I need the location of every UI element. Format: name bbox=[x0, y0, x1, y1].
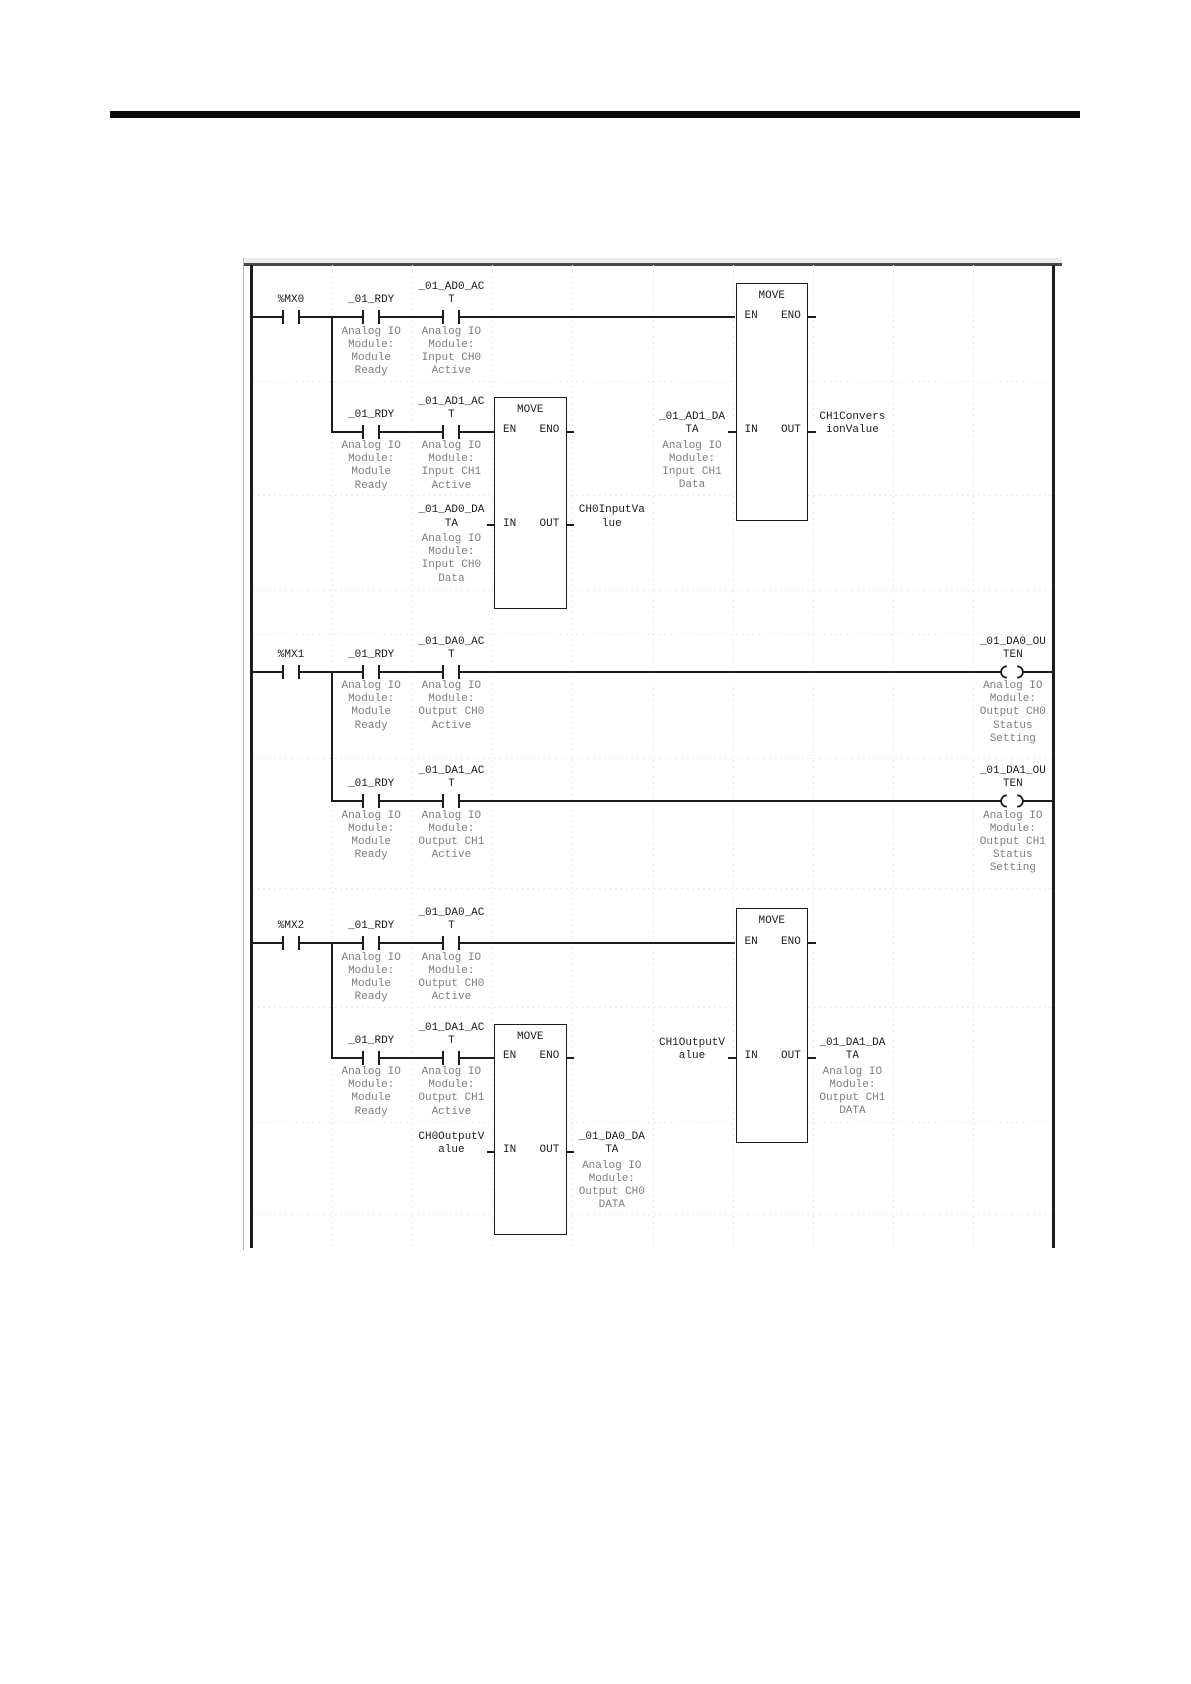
grid row line 9 bbox=[252, 1214, 1052, 1215]
wire U2 ENO stub bbox=[567, 431, 575, 433]
contact %MX2 label bbox=[211, 920, 371, 933]
contact _01_DA0_ACT r3a bbox=[442, 936, 444, 950]
grid row line 1 bbox=[252, 381, 1052, 382]
contact _01_RDY r1b bbox=[362, 425, 364, 439]
wire rung2 _01_RDY to _01_DA0_ACT bbox=[380, 671, 442, 673]
operand U2 OUT CH0InputValue label bbox=[532, 504, 692, 530]
wire rung2b _01_RDY to _01_DA1_ACT bbox=[380, 800, 442, 802]
operand U3 OUT _01_DA0_DATA description bbox=[532, 1160, 692, 1213]
grid row line 4 bbox=[252, 634, 1052, 635]
contact _01_AD0_ACT description bbox=[371, 326, 531, 379]
grid row line 5 bbox=[252, 758, 1052, 759]
contact _01_DA0_ACT r3a label bbox=[371, 907, 531, 933]
contact _01_DA1_ACT r2b label bbox=[371, 765, 531, 791]
wire rung2 %MX1 to _01_RDY bbox=[300, 671, 362, 673]
grid column line 1 bbox=[332, 265, 333, 1248]
function block MOVE U3 bbox=[494, 1024, 567, 1235]
contact _01_RDY r2b label bbox=[291, 778, 451, 791]
contact _01_RDY r3b label bbox=[291, 1035, 451, 1048]
contact _01_DA0_ACT r2a label bbox=[371, 636, 531, 662]
operand U1 IN _01_AD1_DATA description bbox=[612, 440, 772, 493]
wire U1 OUT stub bbox=[808, 431, 816, 433]
right power rail bbox=[1052, 265, 1055, 1248]
contact _01_RDY r1a bbox=[362, 310, 364, 324]
grid column line 7 bbox=[813, 265, 814, 1248]
contact _01_AD0_ACT bbox=[442, 310, 444, 324]
contact _01_AD0_ACT label bbox=[371, 281, 531, 307]
contact _01_AD1_ACT label bbox=[371, 396, 531, 422]
contact _01_RDY r2a label bbox=[291, 649, 451, 662]
contact _01_AD1_ACT description bbox=[371, 440, 531, 493]
grid column line 3 bbox=[492, 265, 493, 1248]
operand U2 IN _01_AD0_DATA description bbox=[371, 533, 531, 586]
wire rung3 %MX2 to _01_RDY bbox=[300, 942, 362, 944]
wire rung1b _01_AD1_ACT to MOVE U2 bbox=[460, 431, 494, 433]
operand U2 IN _01_AD0_DATA label bbox=[371, 504, 531, 530]
ladder window left border bbox=[243, 258, 244, 1250]
wire rung1b _01_RDY to _01_AD1_ACT bbox=[380, 431, 442, 433]
wire rung3b _01_DA1_ACT to MOVE U3 bbox=[460, 1057, 494, 1059]
wire rung2 rail to %MX1 bbox=[253, 671, 282, 673]
grid column line 8 bbox=[893, 265, 894, 1248]
contact _01_DA0_ACT r3a description bbox=[371, 952, 531, 1005]
operand U3 OUT _01_DA0_DATA label bbox=[532, 1131, 692, 1157]
operand U1 OUT CH1ConversionValue label bbox=[772, 411, 932, 437]
wire rung3b branch to _01_RDY bbox=[331, 1057, 362, 1059]
wire rung2b branch to _01_RDY bbox=[331, 800, 362, 802]
function block MOVE U2 bbox=[494, 397, 567, 609]
wire rung1 rail to %MX0 contact bbox=[253, 316, 282, 318]
contact %MX0 bbox=[282, 310, 284, 324]
wire rung2b _01_DA1_ACT to coil bbox=[460, 800, 1001, 802]
coil _01_DA0_OUTEN description bbox=[933, 680, 1093, 746]
contact _01_RDY r3b description bbox=[291, 1066, 451, 1119]
contact _01_DA0_ACT r2a description bbox=[371, 680, 531, 733]
contact _01_RDY r2b description bbox=[291, 810, 451, 863]
wire U2 OUT stub bbox=[567, 524, 575, 526]
contact %MX1 label bbox=[211, 649, 371, 662]
contact _01_DA1_ACT r3b description bbox=[371, 1066, 531, 1119]
grid column line 6 bbox=[733, 265, 734, 1248]
contact %MX2 bbox=[282, 936, 284, 950]
wire U3 OUT stub bbox=[567, 1151, 575, 1153]
contact _01_RDY r1a label bbox=[291, 294, 451, 307]
contact _01_DA0_ACT r2a bbox=[442, 665, 444, 679]
wire U1 ENO stub bbox=[808, 316, 816, 318]
wire rung3 rail to %MX2 bbox=[253, 942, 282, 944]
operand U4 OUT _01_DA1_DATA description bbox=[772, 1066, 932, 1119]
contact _01_RDY r3a description bbox=[291, 952, 451, 1005]
wire U1 IN stub bbox=[728, 431, 736, 433]
function block MOVE U4 bbox=[736, 908, 809, 1143]
grid column line 4 bbox=[572, 265, 573, 1248]
wire rung3b _01_RDY to _01_DA1_ACT bbox=[380, 1057, 442, 1059]
left power rail bbox=[250, 265, 253, 1248]
wire rung1 _01_AD0_ACT to MOVE U1 bbox=[460, 316, 735, 318]
contact _01_RDY r2b bbox=[362, 794, 364, 808]
grid column line 2 bbox=[412, 265, 413, 1248]
grid column line 9 bbox=[973, 265, 974, 1248]
branch rung1 bbox=[331, 317, 333, 433]
contact _01_RDY r2a bbox=[362, 665, 364, 679]
wire U4 OUT stub bbox=[808, 1057, 816, 1059]
wire U4 ENO stub bbox=[808, 942, 816, 944]
operand U4 OUT _01_DA1_DATA label bbox=[772, 1037, 932, 1063]
wire rung1 %MX0 to _01_RDY bbox=[300, 316, 362, 318]
wire rung2b coil to right rail bbox=[1022, 800, 1052, 802]
wire U3 ENO stub bbox=[567, 1057, 575, 1059]
wire U3 IN stub bbox=[487, 1151, 495, 1153]
wire rung1 branch to _01_RDY b bbox=[331, 431, 362, 433]
grid row line 6 bbox=[252, 888, 1052, 889]
operand U4 IN CH1OutputValue label bbox=[612, 1037, 772, 1063]
ladder window top strip bbox=[243, 258, 1062, 263]
coil _01_DA0_OUTEN bbox=[998, 665, 1026, 679]
function block MOVE U1 bbox=[736, 283, 809, 522]
branch rung3 bbox=[331, 943, 333, 1059]
contact _01_DA1_ACT r3b bbox=[442, 1051, 444, 1065]
contact _01_RDY r1b label bbox=[291, 409, 451, 422]
document top rule bbox=[110, 111, 1080, 118]
contact %MX1 bbox=[282, 665, 284, 679]
contact _01_RDY r1a description bbox=[291, 326, 451, 379]
ladder window top border bbox=[243, 263, 1062, 266]
coil _01_DA1_OUTEN label bbox=[933, 765, 1093, 791]
wire U4 IN stub bbox=[728, 1057, 736, 1059]
contact _01_RDY r3a label bbox=[291, 920, 451, 933]
wire rung1 _01_RDY to _01_AD0_ACT bbox=[380, 316, 442, 318]
wire rung2 coil to right rail bbox=[1022, 671, 1052, 673]
operand U3 IN CH0OutputValue label bbox=[371, 1131, 531, 1157]
grid row line 8 bbox=[252, 1122, 1052, 1123]
contact _01_AD1_ACT bbox=[442, 425, 444, 439]
wire rung3 _01_DA0_ACT to MOVE U4 bbox=[460, 942, 735, 944]
grid row line 2 bbox=[252, 495, 1052, 496]
contact _01_RDY r2a description bbox=[291, 680, 451, 733]
contact %MX0 label bbox=[211, 294, 371, 307]
coil _01_DA1_OUTEN bbox=[998, 794, 1026, 808]
wire rung2 _01_DA0_ACT to coil bbox=[460, 671, 1001, 673]
contact _01_RDY r3a bbox=[362, 936, 364, 950]
contact _01_DA1_ACT r2b bbox=[442, 794, 444, 808]
grid row line 3 bbox=[252, 590, 1052, 591]
operand U1 IN _01_AD1_DATA label bbox=[612, 411, 772, 437]
grid row line 7 bbox=[252, 1007, 1052, 1008]
coil _01_DA0_OUTEN label bbox=[933, 636, 1093, 662]
contact _01_RDY r1b description bbox=[291, 440, 451, 493]
wire U2 IN stub bbox=[487, 524, 495, 526]
contact _01_DA1_ACT r3b label bbox=[371, 1022, 531, 1048]
contact _01_RDY r3b bbox=[362, 1051, 364, 1065]
coil _01_DA1_OUTEN description bbox=[933, 810, 1093, 876]
grid column line 5 bbox=[653, 265, 654, 1248]
branch rung2 bbox=[331, 672, 333, 803]
wire rung3 _01_RDY to _01_DA0_ACT bbox=[380, 942, 442, 944]
contact _01_DA1_ACT r2b description bbox=[371, 810, 531, 863]
